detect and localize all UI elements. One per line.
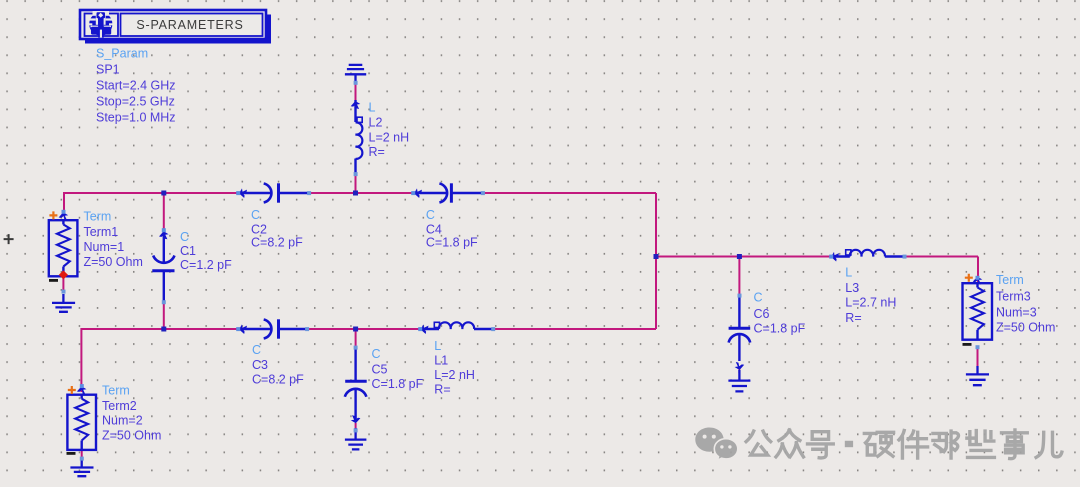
- pin Term1 top: [62, 210, 66, 214]
- term Term2: [67, 395, 96, 450]
- svg-text:C=1.8 pF: C=1.8 pF: [372, 377, 424, 391]
- label Term3: [996, 273, 1055, 335]
- Term3 minus mark: [963, 343, 972, 346]
- svg-text:Z=50 Ohm: Z=50 Ohm: [996, 321, 1055, 335]
- svg-text:C=8.2 pF: C=8.2 pF: [251, 236, 303, 250]
- capacitor C4: [413, 183, 483, 202]
- svg-text:C4: C4: [426, 223, 442, 237]
- arrow L3 pin1: [831, 252, 839, 262]
- char gong: [746, 431, 771, 455]
- svg-text:S-PARAMETERS: S-PARAMETERS: [136, 18, 243, 32]
- svg-text:L1: L1: [434, 354, 448, 368]
- label C3: [252, 343, 304, 387]
- char jian: [899, 431, 928, 458]
- pin C1 bottom: [162, 300, 166, 304]
- arrow C6 pin2: [735, 362, 745, 370]
- pin Term3 top: [976, 276, 980, 280]
- svg-text:C5: C5: [372, 363, 388, 377]
- char ying: [864, 432, 893, 456]
- pin L3 right: [903, 255, 907, 259]
- junction L2 bottom: [353, 191, 358, 196]
- pin C6 top: [738, 294, 742, 298]
- svg-text:L=2.7 nH: L=2.7 nH: [845, 296, 896, 310]
- junction C5 top: [353, 327, 358, 332]
- term Term3: [963, 283, 993, 340]
- L1 pin1 square: [434, 322, 439, 327]
- capacitor C3: [238, 319, 308, 338]
- inductor L2: [356, 100, 363, 175]
- svg-text:C=8.2 pF: C=8.2 pF: [252, 373, 304, 387]
- wire top bus: [64, 192, 656, 194]
- watermark text 公众号 · 硬件那些事儿: [746, 430, 1062, 459]
- junction mid bus left: [654, 254, 659, 259]
- svg-text:Term: Term: [102, 384, 130, 398]
- svg-text:Z=50 Ohm: Z=50 Ohm: [84, 255, 143, 269]
- wire L2 branch: [355, 84, 357, 193]
- svg-text:C: C: [180, 230, 189, 244]
- junction C6 top: [737, 254, 742, 259]
- svg-text:C: C: [372, 347, 381, 361]
- pin C5 top: [354, 346, 358, 350]
- arrow C1 pin1: [159, 231, 169, 239]
- svg-text:L: L: [369, 101, 376, 115]
- char er: [1036, 432, 1062, 457]
- pin C3 right: [305, 327, 309, 331]
- arrow C3 pin1: [239, 324, 247, 334]
- arrow Term3 pin1: [973, 277, 983, 285]
- L3 pin1 square: [846, 250, 851, 255]
- svg-text:SP1: SP1: [96, 63, 120, 77]
- Term1 minus mark: [49, 279, 58, 282]
- label L1: [434, 339, 475, 397]
- wire Term1 drop: [63, 192, 65, 212]
- svg-text:R=: R=: [434, 383, 450, 397]
- label C6: [754, 291, 806, 336]
- svg-text:C=1.8 pF: C=1.8 pF: [426, 236, 478, 250]
- wire Term1 bottom: [62, 276, 64, 292]
- arrow C4 pin1: [414, 188, 422, 198]
- junction C1 bottom: [161, 327, 166, 332]
- char xie: [967, 431, 994, 458]
- term Term1: [49, 220, 78, 276]
- wire right vertical: [655, 193, 657, 329]
- arrow C2 pin1: [239, 188, 247, 198]
- svg-text:Start=2.4 GHz: Start=2.4 GHz: [96, 79, 176, 93]
- svg-text:S_Param: S_Param: [96, 47, 148, 61]
- arrow C5 pin2: [351, 415, 361, 423]
- arrow Term1 pin1: [59, 212, 69, 220]
- svg-text:C: C: [754, 291, 763, 305]
- label C5: [372, 347, 424, 391]
- svg-text:Z=50 Ohm: Z=50 Ohm: [102, 429, 161, 443]
- wire Term2 drop: [80, 328, 82, 392]
- capacitor C5: [345, 348, 367, 420]
- svg-text:C: C: [251, 208, 260, 222]
- svg-text:L: L: [434, 339, 441, 353]
- label L2: [369, 101, 410, 160]
- svg-text:C2: C2: [251, 223, 267, 237]
- wire Term2 bottom: [81, 450, 83, 459]
- wire bottom bus: [81, 328, 656, 330]
- pin L3 left: [829, 255, 833, 259]
- svg-text:L3: L3: [845, 281, 859, 295]
- S-PARAMETERS header box: [80, 10, 271, 44]
- ground Term1: [52, 294, 75, 312]
- watermark wechat logo: [695, 427, 737, 460]
- char shi: [1002, 430, 1028, 459]
- svg-text:C: C: [252, 343, 261, 357]
- Term3 plus mark: [965, 274, 973, 282]
- middle dot: [848, 441, 850, 447]
- capacitor C2: [238, 183, 310, 202]
- svg-text:C3: C3: [252, 358, 268, 372]
- pin C5 bottom: [354, 428, 358, 432]
- svg-text:Term2: Term2: [102, 399, 137, 413]
- label Term1: [84, 210, 143, 270]
- Term1 red diamond: [59, 270, 68, 279]
- label C2: [251, 208, 303, 250]
- inductor L3: [830, 250, 905, 257]
- arrow Term2 pin1: [77, 386, 87, 394]
- pin Term2 bottom: [80, 457, 84, 461]
- svg-text:Term: Term: [84, 210, 112, 224]
- pin L2 top: [354, 81, 358, 85]
- pin C2 right: [307, 191, 311, 195]
- pin C1 top: [162, 228, 166, 232]
- svg-text:L: L: [845, 266, 852, 280]
- svg-text:C=1.8 pF: C=1.8 pF: [754, 322, 806, 336]
- capacitor C1: [152, 230, 174, 302]
- wire C1 branch: [163, 193, 165, 329]
- pin Term1 bottom: [62, 290, 66, 294]
- label L3: [845, 266, 896, 326]
- ground C6: [728, 370, 750, 391]
- svg-text:L=2 nH: L=2 nH: [434, 368, 475, 382]
- pin Term2 top: [80, 384, 84, 388]
- svg-text:Num=2: Num=2: [102, 414, 143, 428]
- wire Term3 bottom: [977, 347, 979, 368]
- svg-text:L=2 nH: L=2 nH: [369, 131, 410, 145]
- S_Param SP1 settings text: [96, 47, 176, 125]
- svg-text:Num=1: Num=1: [84, 240, 125, 254]
- junction C1 top: [161, 191, 166, 196]
- svg-text:R=: R=: [369, 145, 385, 159]
- capacitor C6: [729, 294, 751, 361]
- Term1 plus mark: [49, 211, 57, 219]
- svg-text:Term: Term: [996, 273, 1024, 287]
- origin marker cross: [4, 234, 14, 244]
- svg-text:R=: R=: [845, 311, 861, 325]
- ground Term3: [966, 366, 989, 385]
- wire C6 branch: [738, 257, 740, 374]
- char na: [933, 431, 959, 458]
- label C1: [180, 230, 232, 272]
- Term2 plus mark: [68, 386, 76, 394]
- pin L1 left: [418, 327, 422, 331]
- label C4: [426, 208, 478, 250]
- ground top (L2): [345, 65, 366, 84]
- svg-text:Term1: Term1: [84, 225, 119, 239]
- svg-text:Num=3: Num=3: [996, 306, 1037, 320]
- pin C4 right: [481, 191, 485, 195]
- ground C5: [345, 428, 367, 449]
- wire mid bus: [656, 256, 978, 258]
- svg-text:L2: L2: [369, 116, 383, 130]
- svg-text:C1: C1: [180, 244, 196, 258]
- pin C3 left: [236, 327, 240, 331]
- pin C4 left: [411, 191, 415, 195]
- label Term2: [102, 384, 161, 443]
- char zhong: [776, 430, 803, 457]
- arrow L2 pin1: [351, 101, 361, 109]
- svg-text:Step=1.0 MHz: Step=1.0 MHz: [96, 111, 176, 125]
- inductor L1: [419, 322, 493, 329]
- S-PARAMETERS icon: [87, 11, 114, 38]
- svg-text:C6: C6: [754, 307, 770, 321]
- wire Term3 drop: [977, 257, 979, 285]
- pin L1 right: [491, 327, 495, 331]
- char hao: [808, 432, 834, 458]
- svg-text:C: C: [426, 208, 435, 222]
- svg-text:C=1.2 pF: C=1.2 pF: [180, 258, 232, 272]
- svg-text:Term3: Term3: [996, 290, 1031, 304]
- pin L2 bottom: [354, 172, 358, 176]
- svg-text:Stop=2.5 GHz: Stop=2.5 GHz: [96, 95, 175, 109]
- pin C2 left: [236, 191, 240, 195]
- Term2 minus mark: [67, 452, 76, 455]
- pin Term3 bottom: [976, 345, 980, 349]
- L2 pin1 square: [357, 117, 362, 122]
- arrow L1 pin1: [421, 324, 429, 334]
- ground Term2: [70, 460, 93, 476]
- wire C5 branch: [355, 329, 357, 431]
